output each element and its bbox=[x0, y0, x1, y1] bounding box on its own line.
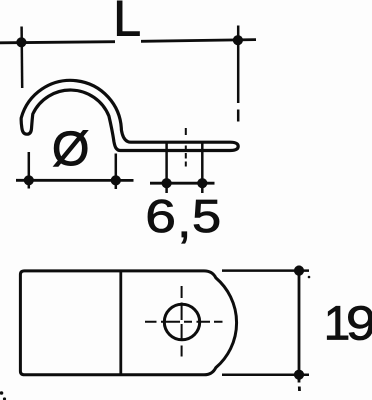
dimension dot 19 top bbox=[294, 266, 304, 276]
clamp plan-view outline bbox=[20, 271, 236, 375]
dimension line 6,5 bbox=[150, 182, 215, 185]
extension line right of L bbox=[237, 26, 240, 122]
scan artifact near top 19 dot bbox=[308, 276, 311, 279]
hole centerline side view bbox=[185, 128, 187, 167]
dimension dot 6,5 left bbox=[162, 178, 172, 188]
extension line 19 top bbox=[222, 269, 309, 272]
dimension dot 6,5 right bbox=[197, 178, 207, 188]
hole plan view bbox=[164, 304, 199, 339]
svg-text:6: 6 bbox=[145, 190, 176, 242]
dimension dot 19 bottom bbox=[294, 370, 304, 380]
hole edge line left in side view bbox=[165, 142, 168, 194]
dimension dot L right bbox=[233, 35, 243, 45]
svg-text:,: , bbox=[177, 194, 191, 248]
hole centerline vertical bbox=[181, 286, 183, 357]
dimension line 19 bbox=[298, 266, 301, 392]
extension line left of L bbox=[20, 27, 23, 89]
clamp side-view outline (arch + tab) bbox=[21, 80, 238, 150]
extension line diameter left bbox=[28, 152, 31, 189]
extension line diameter right bbox=[115, 154, 118, 190]
hole edge line right in side view bbox=[201, 142, 204, 194]
extension line 19 bottom bbox=[222, 373, 309, 376]
svg-text:5: 5 bbox=[192, 191, 221, 242]
scan artifact bottom left bbox=[0, 391, 3, 395]
dimension line L bbox=[0, 40, 256, 43]
dimension dot diameter left bbox=[24, 175, 34, 185]
svg-text:L: L bbox=[113, 0, 141, 46]
dimension line inner diameter bbox=[16, 179, 134, 182]
dimension dot diameter right bbox=[111, 175, 121, 185]
svg-text:9: 9 bbox=[346, 296, 372, 350]
svg-text:Ø: Ø bbox=[52, 123, 89, 176]
bend line plan view bbox=[119, 272, 122, 375]
dimension dot L left bbox=[16, 37, 26, 47]
hole centerline horizontal bbox=[145, 321, 223, 323]
